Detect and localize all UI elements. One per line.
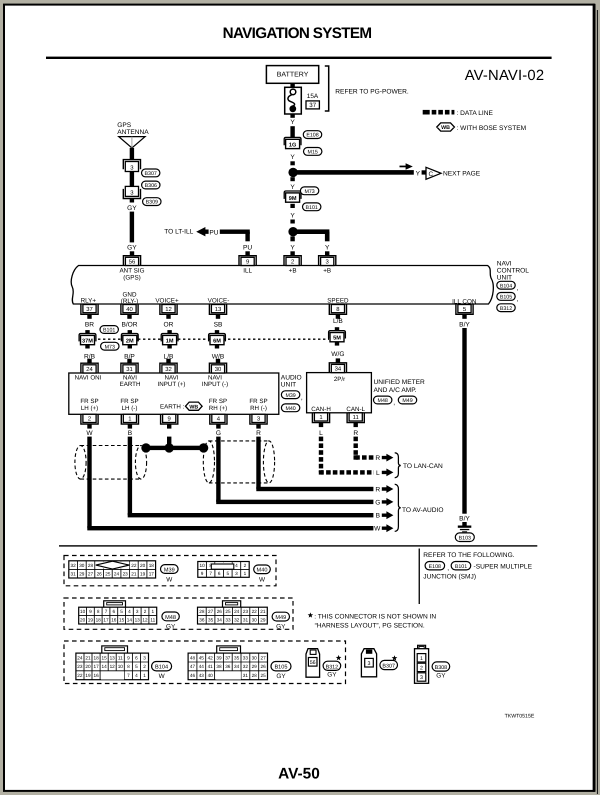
- svg-text:Y: Y: [290, 213, 295, 220]
- junction dot shield left: [141, 443, 150, 452]
- svg-text:20: 20: [85, 664, 91, 669]
- junction dot to next page: [288, 168, 297, 177]
- wire branch to pin 3: [293, 229, 330, 234]
- svg-text:GY: GY: [436, 672, 446, 679]
- svg-text:Y: Y: [290, 184, 295, 191]
- svg-text:SPEED: SPEED: [327, 298, 349, 305]
- svg-text:UNIT: UNIT: [497, 275, 512, 282]
- svg-text:22: 22: [252, 609, 258, 614]
- svg-text:UNIT: UNIT: [281, 381, 296, 388]
- svg-text:LH (-): LH (-): [122, 405, 138, 412]
- svg-text:E108: E108: [429, 564, 441, 570]
- svg-text:34: 34: [234, 664, 240, 669]
- svg-text:M48: M48: [378, 398, 388, 404]
- connector oval B307 detail: [380, 660, 398, 669]
- svg-text:17: 17: [93, 664, 99, 669]
- svg-text:1: 1: [244, 571, 247, 576]
- svg-text:41: 41: [208, 664, 214, 669]
- wire R fr sp rh-: [256, 437, 260, 489]
- wire Y between junctions: [290, 177, 294, 181]
- svg-text:1: 1: [420, 656, 423, 662]
- svg-text:ILL: ILL: [243, 268, 252, 275]
- junction dot earth: [165, 443, 174, 452]
- wire antenna feeder: [130, 148, 134, 160]
- svg-text:27: 27: [260, 655, 266, 660]
- svg-text:TO LT-ILL: TO LT-ILL: [164, 229, 193, 236]
- svg-text:39: 39: [216, 655, 222, 660]
- svg-text:11: 11: [150, 618, 155, 623]
- svg-text:W: W: [86, 430, 93, 437]
- connector oval M48 unified: [374, 396, 392, 404]
- earth wire from pin 9: [167, 437, 171, 448]
- svg-text:R: R: [375, 486, 380, 493]
- svg-text:M40: M40: [257, 568, 268, 574]
- svg-text:CAN-H: CAN-H: [311, 406, 331, 413]
- pin 12 voice+: [160, 305, 177, 315]
- svg-text:29: 29: [79, 572, 85, 577]
- svg-text:31: 31: [243, 618, 249, 623]
- svg-text:VOICE-: VOICE-: [208, 298, 230, 305]
- svg-text:46: 46: [190, 673, 196, 678]
- brace to av-audio: [395, 484, 401, 531]
- svg-text:3: 3: [143, 655, 146, 660]
- can-l data wire R: [354, 437, 374, 460]
- svg-text:-SUPER MULTIPLE: -SUPER MULTIPLE: [474, 564, 533, 571]
- svg-text:21: 21: [260, 609, 266, 614]
- svg-text:29: 29: [252, 664, 258, 669]
- battery B1: [266, 66, 318, 84]
- page shadow line right: [597, 10, 598, 794]
- pin 2 +B: [284, 256, 301, 266]
- svg-text:47: 47: [190, 664, 196, 669]
- connector B307 detail 3: [361, 649, 376, 677]
- svg-text:GY: GY: [327, 672, 337, 679]
- svg-text:M49: M49: [402, 398, 412, 404]
- dotted SMJ separator line: [98, 338, 329, 340]
- connector 3 B309 side: [125, 186, 138, 196]
- bracket refer to pg-power: [325, 66, 329, 111]
- svg-text:EARTH: EARTH: [120, 381, 141, 388]
- svg-text:37: 37: [225, 655, 231, 660]
- connector oval B104: [497, 281, 515, 289]
- svg-text:W/G: W/G: [331, 351, 344, 358]
- svg-text:M40: M40: [285, 406, 295, 412]
- svg-text:34: 34: [217, 618, 223, 623]
- svg-text:37: 37: [309, 102, 316, 109]
- svg-text:18: 18: [93, 655, 99, 660]
- svg-text:12: 12: [110, 664, 116, 669]
- svg-text:24: 24: [77, 655, 83, 660]
- fuse number 37: [306, 101, 319, 109]
- svg-text:37: 37: [86, 306, 93, 313]
- svg-text:Y: Y: [325, 245, 330, 252]
- svg-text:B307: B307: [382, 664, 395, 670]
- svg-text:L: L: [319, 430, 323, 437]
- svg-text:21: 21: [131, 572, 137, 577]
- unified meter and a/c amp box: [307, 373, 372, 413]
- svg-text:UNIFIED METER: UNIFIED METER: [374, 379, 426, 386]
- svg-text:VOICE+: VOICE+: [155, 298, 179, 305]
- svg-text:2: 2: [88, 416, 91, 423]
- legend data line sample: [423, 110, 430, 115]
- svg-text:B104: B104: [155, 665, 168, 671]
- svg-text:JUNCTION (SMJ): JUNCTION (SMJ): [423, 574, 476, 581]
- svg-text:M39: M39: [164, 567, 175, 573]
- svg-text:1: 1: [151, 609, 154, 614]
- pin 56 ant sig: [123, 256, 140, 266]
- pin 1 fr sp lh-: [121, 414, 138, 424]
- section divider line: [59, 545, 537, 546]
- star B307: [392, 655, 398, 660]
- pin 11 can-l: [347, 413, 364, 423]
- svg-text:RLY+: RLY+: [81, 298, 97, 305]
- svg-text:B101: B101: [306, 205, 318, 211]
- svg-text:45: 45: [199, 655, 205, 660]
- svg-text:M73: M73: [105, 344, 115, 350]
- connector oval B103 ground: [455, 533, 474, 542]
- svg-text:L: L: [376, 470, 380, 477]
- svg-text:19: 19: [85, 673, 91, 678]
- svg-text:40: 40: [126, 306, 133, 313]
- svg-text:20: 20: [140, 563, 146, 568]
- wire between antenna connectors: [130, 172, 134, 187]
- svg-text:,: ,: [447, 565, 449, 572]
- svg-text:25: 25: [105, 572, 111, 577]
- ground symbol: [462, 522, 466, 526]
- svg-text:35: 35: [208, 618, 214, 623]
- svg-text:M15: M15: [308, 150, 318, 156]
- oval E108 following: [425, 562, 445, 570]
- svg-text:15: 15: [101, 655, 107, 660]
- connector oval M48 detail: [162, 612, 179, 621]
- svg-text:16: 16: [93, 673, 99, 678]
- svg-text:RH (+): RH (+): [209, 405, 227, 412]
- connector oval B105 detail: [271, 662, 291, 671]
- connector detail box row 2: [64, 598, 293, 629]
- star B312: [336, 655, 342, 660]
- brace to lan-can: [395, 453, 401, 478]
- SMJ connector 9M M73 B101: [284, 191, 301, 199]
- svg-text:28: 28: [88, 563, 94, 568]
- svg-text:10: 10: [80, 609, 86, 614]
- wire W fr sp lh+: [87, 437, 91, 529]
- connector oval B101 smj row: [100, 326, 118, 334]
- pin 2 fr sp lh+: [81, 414, 98, 424]
- svg-text:1: 1: [143, 673, 146, 678]
- svg-text:B: B: [376, 513, 381, 520]
- svg-text:REFER TO PG-POWER.: REFER TO PG-POWER.: [335, 89, 409, 96]
- svg-text:B/Y: B/Y: [459, 516, 470, 523]
- connector oval B308 detail: [432, 662, 450, 671]
- svg-text:9: 9: [127, 655, 130, 660]
- svg-text:28: 28: [199, 609, 205, 614]
- connector 3 B307 antenna side: [123, 160, 140, 170]
- pin 24 navi on: [81, 363, 98, 373]
- svg-text:B103: B103: [459, 536, 471, 542]
- connector B308 detail 1 2 3: [418, 645, 426, 649]
- connector oval B307: [142, 169, 160, 177]
- svg-text:12: 12: [165, 306, 172, 313]
- svg-text:4: 4: [128, 609, 131, 614]
- svg-text:AND A/C AMP.: AND A/C AMP.: [374, 387, 417, 394]
- svg-text:BATTERY: BATTERY: [277, 72, 309, 79]
- svg-text:1: 1: [319, 414, 322, 421]
- svg-text:16: 16: [111, 618, 117, 623]
- wire Y below 9M: [290, 204, 294, 208]
- svg-text:40: 40: [208, 673, 214, 678]
- connector oval M15: [304, 148, 322, 156]
- svg-text:36: 36: [199, 618, 205, 623]
- svg-text:2M: 2M: [126, 338, 134, 344]
- svg-text:,: ,: [517, 285, 519, 292]
- svg-text:C: C: [428, 171, 433, 178]
- svg-text:G: G: [216, 430, 221, 437]
- svg-text:3: 3: [368, 661, 371, 667]
- svg-text:: DATA LINE: : DATA LINE: [457, 110, 494, 117]
- svg-text:,: ,: [517, 296, 519, 303]
- shield tube left: [75, 446, 147, 480]
- pin 30 navi input-: [209, 363, 226, 373]
- svg-text:5: 5: [226, 571, 229, 576]
- svg-text:: WITH BOSE SYSTEM: : WITH BOSE SYSTEM: [457, 125, 527, 132]
- connector M40 grid: [198, 562, 249, 578]
- svg-text:56: 56: [129, 259, 136, 266]
- svg-text:7: 7: [105, 609, 108, 614]
- svg-text:8: 8: [97, 609, 100, 614]
- svg-text:1M: 1M: [166, 338, 174, 344]
- svg-text:33: 33: [243, 655, 249, 660]
- svg-text:23: 23: [123, 572, 129, 577]
- connector B105 grid: [188, 653, 267, 680]
- svg-text:B306: B306: [145, 183, 157, 189]
- wire G fr sp rh+: [216, 437, 220, 502]
- svg-text:PU: PU: [243, 245, 252, 252]
- svg-text:30: 30: [215, 366, 222, 373]
- svg-text:,: ,: [301, 394, 303, 401]
- svg-text:24: 24: [114, 572, 120, 577]
- wire B/Y ground: [462, 328, 466, 514]
- svg-text:B312: B312: [500, 306, 512, 312]
- svg-text:27: 27: [88, 572, 94, 577]
- svg-text:17: 17: [103, 618, 109, 623]
- connector oval M39 audio: [281, 391, 299, 399]
- svg-text:32: 32: [234, 618, 240, 623]
- connector M49 tab: [223, 601, 241, 608]
- svg-text:E108: E108: [306, 133, 318, 139]
- svg-text:(GPS): (GPS): [123, 274, 141, 281]
- svg-text:7: 7: [127, 673, 130, 678]
- svg-text:38: 38: [216, 664, 222, 669]
- svg-text:PU: PU: [209, 229, 218, 236]
- junction dot shield right: [199, 443, 208, 452]
- svg-text:GPS: GPS: [117, 122, 132, 129]
- svg-text:2: 2: [144, 609, 147, 614]
- svg-text:Y: Y: [290, 119, 295, 126]
- svg-text:20: 20: [80, 618, 86, 623]
- svg-text:GY: GY: [276, 673, 286, 680]
- svg-text:Y: Y: [290, 154, 295, 161]
- svg-text:44: 44: [199, 664, 205, 669]
- svg-text:M49: M49: [275, 615, 286, 621]
- svg-text:NEXT PAGE: NEXT PAGE: [443, 171, 481, 178]
- connector detail box row 1: [64, 556, 276, 586]
- wire Y below fuse: [290, 114, 294, 118]
- pin 13 voice-: [209, 305, 226, 315]
- svg-text:B101: B101: [455, 564, 467, 570]
- connector M39 grid: [69, 561, 156, 578]
- svg-text:B: B: [128, 430, 133, 437]
- svg-text:Y: Y: [290, 245, 295, 252]
- svg-text:43: 43: [199, 673, 205, 678]
- svg-text:6: 6: [135, 655, 138, 660]
- connector oval M40 audio: [281, 404, 299, 412]
- with-bose hexagon WB earth: [186, 402, 203, 410]
- M39 diamond key: [96, 561, 129, 569]
- shield tube right: [203, 441, 274, 483]
- svg-text:B307: B307: [145, 171, 157, 177]
- svg-text:10: 10: [118, 664, 124, 669]
- svg-text:15A: 15A: [307, 93, 319, 100]
- svg-text:B309: B309: [146, 200, 158, 206]
- svg-text:B104: B104: [500, 283, 512, 289]
- svg-text:18: 18: [96, 618, 102, 623]
- svg-text:,: ,: [393, 400, 395, 407]
- svg-text:B105: B105: [500, 295, 512, 301]
- svg-text:B101: B101: [103, 328, 115, 334]
- SMJ connector 37M: [85, 330, 89, 334]
- svg-text:GY: GY: [166, 623, 176, 630]
- shield earth junction line: [144, 446, 207, 450]
- svg-text:19: 19: [140, 572, 146, 577]
- off-page connector C next page: [426, 167, 441, 179]
- svg-text:1: 1: [128, 416, 131, 423]
- svg-text:25: 25: [260, 673, 266, 678]
- svg-text:3: 3: [136, 609, 139, 614]
- fuse 15A 37: [285, 87, 302, 114]
- svg-text:LH (+): LH (+): [81, 405, 98, 412]
- svg-text:AV-50: AV-50: [278, 765, 320, 782]
- svg-text:GY: GY: [127, 245, 137, 252]
- svg-text:CAN-L: CAN-L: [346, 406, 365, 413]
- pin 32 navi input+: [160, 363, 177, 373]
- svg-text:2P/r: 2P/r: [334, 376, 345, 383]
- pin 3 fr sp rh-: [250, 414, 267, 424]
- svg-text:NAVI ONI: NAVI ONI: [75, 375, 102, 382]
- svg-text:TKWT0515E: TKWT0515E: [505, 714, 535, 720]
- connector oval B312: [497, 304, 515, 312]
- svg-text:1G: 1G: [289, 142, 296, 148]
- svg-text:5M: 5M: [333, 336, 341, 342]
- svg-text:+B: +B: [323, 268, 331, 275]
- SMJ connector 6M: [215, 330, 219, 334]
- wire PU to pin 9: [220, 230, 250, 234]
- svg-text:ANTENNA: ANTENNA: [117, 129, 149, 136]
- svg-text:R: R: [256, 430, 261, 437]
- svg-text:9M: 9M: [289, 196, 297, 202]
- svg-text:15: 15: [119, 618, 125, 623]
- svg-text:22: 22: [77, 673, 83, 678]
- svg-text:REFER TO THE FOLLOWING.: REFER TO THE FOLLOWING.: [423, 552, 514, 559]
- svg-text:W: W: [166, 577, 173, 584]
- svg-text:23: 23: [243, 609, 249, 614]
- pin 31 navi earth: [121, 363, 138, 373]
- svg-text:2: 2: [244, 563, 247, 568]
- svg-text:INPUT (-): INPUT (-): [202, 381, 228, 388]
- pin 5 ill con: [456, 305, 473, 315]
- svg-text:23: 23: [77, 664, 83, 669]
- connector B105 tab: [217, 646, 241, 653]
- connector oval B101: [303, 203, 321, 211]
- connector M48 tab: [104, 601, 126, 608]
- svg-text:34: 34: [335, 366, 342, 373]
- svg-text:6: 6: [218, 571, 221, 576]
- connector oval B306: [142, 181, 160, 189]
- svg-text:M48: M48: [165, 615, 176, 621]
- svg-text:30: 30: [252, 618, 258, 623]
- connector oval B104 detail: [152, 662, 172, 671]
- svg-text:21: 21: [85, 655, 91, 660]
- svg-text:26: 26: [217, 609, 223, 614]
- SMJ connector 2M: [128, 330, 132, 334]
- svg-text:19: 19: [88, 618, 94, 623]
- pin 8 speed: [329, 305, 346, 315]
- svg-text:26: 26: [97, 572, 103, 577]
- pin 9 ill: [239, 256, 256, 266]
- connector M48 grid: [79, 607, 157, 624]
- direction arrow on next-page wire: [400, 166, 407, 168]
- connector oval M73: [300, 187, 318, 195]
- can-h data wire L: [319, 437, 374, 475]
- svg-text:W: W: [374, 526, 381, 533]
- svg-text:9: 9: [89, 609, 92, 614]
- svg-text:WB: WB: [189, 404, 198, 410]
- svg-text:36: 36: [225, 664, 231, 669]
- pin 9 earth: [161, 414, 178, 424]
- svg-text:W: W: [159, 673, 166, 680]
- connector oval M40 detail: [254, 565, 271, 574]
- connector B104 tab: [102, 646, 128, 653]
- svg-text:RH (-): RH (-): [250, 405, 267, 412]
- pin 4 fr sp rh+: [210, 414, 227, 424]
- connector oval M73 smj row: [101, 342, 119, 350]
- pin 34 speed input: [329, 363, 346, 373]
- svg-text:2: 2: [291, 259, 294, 266]
- svg-text:18: 18: [149, 563, 155, 568]
- svg-text:INPUT (+): INPUT (+): [158, 381, 186, 388]
- svg-text:30: 30: [252, 655, 258, 660]
- svg-text:M73: M73: [304, 189, 314, 195]
- connector oval B105: [497, 293, 515, 301]
- svg-text:TO LAN-CAN: TO LAN-CAN: [403, 463, 443, 470]
- connector oval B312 detail: [323, 661, 341, 670]
- svg-text:22: 22: [131, 563, 137, 568]
- svg-text:13: 13: [110, 655, 116, 660]
- connector oval B309: [143, 198, 161, 206]
- svg-text:3: 3: [420, 675, 423, 681]
- svg-text:42: 42: [208, 655, 214, 660]
- svg-text:17: 17: [149, 572, 155, 577]
- svg-text:48: 48: [190, 655, 196, 660]
- svg-text:+B: +B: [289, 268, 297, 275]
- pin 37 rly+: [81, 305, 98, 315]
- audio unit box: [69, 373, 279, 414]
- svg-text:12: 12: [142, 618, 148, 623]
- svg-text:10: 10: [199, 563, 205, 568]
- svg-text:32: 32: [165, 366, 172, 373]
- svg-text:EARTH :: EARTH :: [160, 404, 185, 411]
- svg-text:14: 14: [127, 618, 133, 623]
- connector oval M49 detail: [272, 612, 289, 621]
